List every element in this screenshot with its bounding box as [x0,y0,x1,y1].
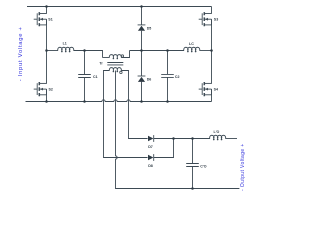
wire S4 source to rail [211,89,213,101]
wire bottom rail with hops [26,100,212,102]
wire C2 branch [167,51,169,102]
wire mid bus left (L1 line) [47,50,59,52]
capacitor C'O [186,164,199,167]
inductor L'O [210,135,226,140]
node D5 rail junction [140,5,143,8]
transformer Tr primary coil [109,55,121,60]
wire S1 drain [46,7,48,14]
diode D7 [148,135,154,142]
svg-text:D7: D7 [148,145,153,149]
wire D7 cathode to output [154,138,210,140]
diode D8 [148,154,154,161]
wire S1 source to node [46,19,48,50]
node C2 bottom rail junction [166,100,169,103]
node C2 top junction [166,49,169,52]
wire D8 cathode up join [154,139,174,158]
wire top rail [27,6,212,8]
node C1 bottom rail junction [83,100,86,103]
transformer Tr secondary polarity dot [120,71,122,73]
transformer Tr secondary coil [109,68,121,73]
svg-text:L1: L1 [63,42,67,46]
svg-text:C'O: C'O [200,164,206,168]
wire C'O branch [192,139,194,189]
wire S4 drain [211,51,213,84]
svg-text:S3: S3 [214,17,218,21]
node D5 D6 mid junction [140,49,143,52]
node LC S3 S4 junction [210,49,213,52]
svg-text:- Output Voltage +: - Output Voltage + [240,143,246,191]
inductor LC [184,47,200,52]
node C'O top junction [191,137,194,140]
wire transformer primary left lead [103,57,110,59]
wire secondary center tap with hop [116,71,240,189]
wire secondary left to D8 [104,71,148,158]
mosfet S2 [34,82,47,96]
mosfet S4 [199,82,212,96]
svg-text:L'O: L'O [214,130,220,134]
transformer Tr primary polarity dot [121,55,123,57]
svg-text:LC: LC [189,42,194,46]
node C'O bottom junction [191,187,194,190]
wire mid bus L1 to transformer corner [74,51,103,58]
diode D5 [138,25,146,31]
node S1 S2 L1 junction [45,49,48,52]
svg-text:C2: C2 [175,75,180,79]
wire S3 drain [211,7,213,14]
mosfet S1 [34,12,47,26]
capacitor C1 [78,75,91,78]
svg-text:S4: S4 [214,87,218,91]
node S1 drain rail junction [45,5,48,8]
svg-text:D6: D6 [147,78,152,82]
wire mid bus LC to S3S4 node [200,50,212,52]
svg-text:- Input Voltage +: - Input Voltage + [18,26,24,81]
svg-text:Tr: Tr [99,61,103,65]
wire secondary right to D7 [121,71,147,139]
capacitor C2 [161,74,174,77]
wire transformer primary right lead [121,51,129,58]
inductor L1 [58,47,74,52]
wire S2 drain [46,51,48,84]
wire C1 branch [84,51,86,102]
svg-text:D5: D5 [147,27,152,31]
node S2 source rail junction [45,100,48,103]
node C1 top junction [83,49,86,52]
wire mid bus right section [130,50,185,52]
wire L'O output end [225,138,237,140]
svg-text:C1: C1 [93,75,98,79]
node D7 D8 cathode junction [172,137,175,140]
node D6 rail junction [140,100,143,103]
mosfet S3 [199,12,212,26]
svg-text:D8: D8 [148,164,153,168]
svg-text:S2: S2 [49,87,53,91]
diode D6 [138,76,146,82]
transformer Tr core [107,63,123,65]
wire S2 source to rail [46,89,48,101]
wire D5 D6 branch [141,7,143,102]
wire S3 source to node [211,19,213,50]
svg-text:S1: S1 [48,17,52,21]
